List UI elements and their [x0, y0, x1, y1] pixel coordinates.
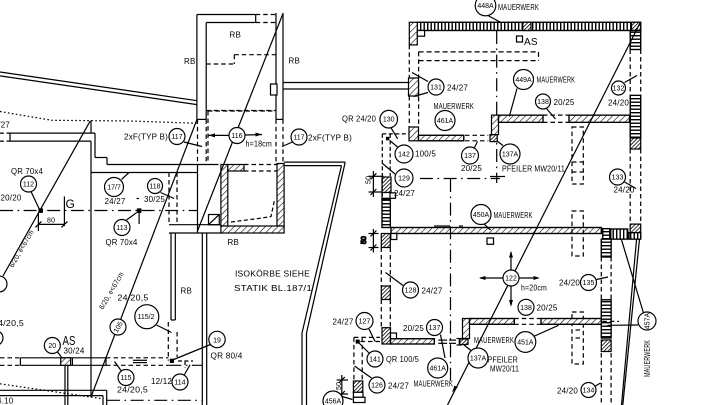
wire dashed box below circle 130: [382, 134, 409, 201]
node circle 137A upper: [500, 144, 520, 164]
svg-text:20/25: 20/25: [554, 98, 575, 107]
wire diagonal section line D1 through circle 116: [197, 14, 283, 232]
wall right ladder column segment 1: [630, 31, 641, 50]
svg-text:24/20,5: 24/20,5: [118, 294, 149, 303]
node circle 137A lower: [468, 348, 488, 368]
wire roof double sloped line top-left: [0, 72, 197, 105]
wire dotted terrain line top-left: [0, 112, 197, 124]
dimension 50 lower with ticks: [337, 375, 348, 399]
wall AS beam bottom-left: [0, 358, 106, 366]
wire long diagonal section line D2: [448, 23, 641, 405]
wall isokorb box top hatched strip: [228, 165, 244, 172]
node circle 137 upper: [462, 147, 479, 164]
svg-text:137: 137: [429, 325, 441, 332]
wall right ladder column segment 2: [630, 95, 641, 138]
wire dotted slope line bottom-left: [0, 384, 103, 399]
svg-text:RB: RB: [230, 31, 242, 40]
wire centerline vertical x=450.5: [450, 179, 452, 384]
svg-text:MW20/11: MW20/11: [490, 365, 519, 374]
svg-text:50: 50: [336, 382, 343, 390]
node filled square at dashed vertical bottom: [170, 359, 173, 362]
wire leader circle 112 to node: [31, 192, 40, 210]
svg-text:20: 20: [48, 343, 56, 350]
svg-text:24/20: 24/20: [557, 387, 578, 396]
node circle 130: [380, 110, 398, 128]
wire dashed rect below AS marker: [419, 52, 539, 61]
svg-text:2xF(TYP B): 2xF(TYP B): [124, 133, 168, 142]
node circle 105 on line: [110, 319, 126, 335]
wall bottom-left box structure: [0, 390, 107, 405]
wall slab edge lines above isokorb box: [169, 225, 221, 233]
node circle 20: [44, 338, 60, 354]
wire leader circle 17/7: [122, 173, 130, 180]
wire double steep line bottom right: [622, 239, 640, 405]
dimension 80 line with oblique ticks: [35, 213, 67, 231]
node circle 448A: [475, 0, 496, 16]
wire dashed verticals below band left end: [409, 45, 418, 127]
wall upper pfeiler column hatched: [492, 115, 499, 135]
wire leader circle 141: [359, 343, 370, 354]
svg-text:138: 138: [520, 305, 532, 312]
svg-text:20/25: 20/25: [537, 304, 558, 313]
wall upper pfeiler dark square: [490, 135, 497, 142]
wall right mid column ladder upper: [601, 239, 611, 257]
node circle edge-left upper: [0, 276, 7, 292]
node arrowhead on D2: [452, 386, 458, 393]
svg-text:24/27: 24/27: [447, 84, 468, 93]
node circle 138 lower: [518, 299, 534, 315]
wall hatched insert piece in top band: [523, 22, 531, 30]
wire dash-dot line bottom: [107, 399, 202, 401]
svg-text:113: 113: [116, 225, 127, 232]
svg-text:2xF(TYP B): 2xF(TYP B): [308, 134, 352, 143]
svg-text:50: 50: [366, 176, 373, 184]
node I-beam end mark: [457, 339, 463, 346]
wire leader circle 142: [390, 141, 398, 148]
wall right column dashed part 2: [630, 149, 641, 224]
wall lower pfeiler dark square: [460, 339, 468, 345]
node small square with diagonal at slab corner: [209, 215, 220, 225]
wire leader circle 451A: [534, 325, 559, 336]
wall bottom middle white blocks: [353, 392, 365, 402]
svg-text:MAUERWERK: MAUERWERK: [494, 211, 533, 220]
svg-text:RB: RB: [228, 238, 240, 247]
node circle 449A: [514, 70, 534, 90]
svg-text:12/12: 12/12: [151, 377, 172, 386]
node circle 451A: [515, 332, 536, 353]
svg-text:118: 118: [149, 184, 160, 191]
node circle 134: [581, 383, 596, 398]
svg-text:17/7: 17/7: [107, 185, 121, 192]
svg-text:20/25: 20/25: [403, 324, 424, 333]
wire leader circle 449A: [509, 89, 517, 117]
wall solid double vertical below isokorb slab: [171, 233, 175, 320]
svg-text:ISOKÖRBE SIEHE: ISOKÖRBE SIEHE: [235, 269, 310, 279]
wall chimney dashed top closing: [256, 15, 276, 23]
node circle 457A: [638, 312, 656, 330]
wall top masonry band with comb hatch: [417, 22, 640, 30]
svg-text:24/27: 24/27: [105, 197, 126, 206]
wall parallelogram wall right of isokorb box: [284, 162, 345, 405]
svg-text:448A: 448A: [477, 3, 494, 10]
svg-text:117: 117: [171, 134, 182, 141]
wall upper wall strip hatched: [419, 135, 464, 141]
node small square below slab right: [487, 238, 494, 244]
wall chimney dashed continuations below: [198, 119, 284, 164]
wire lower band dashed gap: [514, 319, 541, 325]
wire leader circle 130: [391, 128, 398, 139]
wire centerline vertical x=496.7: [496, 31, 498, 183]
node small black square left end: [356, 340, 359, 343]
wire leader circle 448A: [487, 15, 501, 23]
svg-text:MAUERWERK: MAUERWERK: [537, 76, 576, 85]
wall left column dark block below slab: [381, 234, 390, 248]
node small rect at chimney wall junction: [271, 84, 278, 95]
wall upper wall dashed opening: [465, 135, 488, 141]
wire long vertical wall line x=91: [90, 121, 92, 134]
wire AS beam dashed continuation right: [106, 358, 168, 366]
svg-text:135: 135: [583, 280, 595, 287]
svg-text:142: 142: [398, 152, 410, 159]
node circle 450A: [471, 205, 491, 225]
svg-text:RB: RB: [181, 287, 193, 296]
node circle 137 lower: [427, 320, 443, 336]
svg-text:457A: 457A: [645, 313, 652, 330]
svg-text:24/27: 24/27: [422, 287, 443, 296]
wire centerline horizontal y=178.5: [420, 178, 500, 180]
wire right mid column dashed lower: [601, 353, 611, 405]
svg-text:MAUERWERK: MAUERWERK: [414, 380, 454, 389]
svg-text:128: 128: [405, 288, 417, 295]
wire leader circle 135: [597, 277, 609, 280]
wall RB wall double vertical below box: [202, 233, 206, 405]
wall lower pfeiler band hatched: [470, 319, 602, 325]
wire equals marks right of strip: [438, 340, 456, 343]
wire dashed rect C right side: [572, 312, 583, 364]
svg-text:24/20: 24/20: [614, 186, 635, 195]
wall isokorb dashed opening: [244, 165, 277, 172]
svg-text:24/27: 24/27: [388, 382, 409, 391]
svg-text:130: 130: [383, 117, 395, 124]
wall right mid column dark block: [601, 340, 611, 352]
svg-text:20/20: 20/20: [1, 194, 22, 203]
wire leader circle 20: [58, 352, 63, 359]
svg-text:MAUERWERK: MAUERWERK: [498, 3, 539, 12]
svg-text:451A: 451A: [517, 340, 534, 347]
svg-text:G: G: [66, 197, 76, 211]
node circle 116: [229, 128, 245, 144]
wire chimney dashed step inside: [206, 55, 276, 64]
wire lower band dashed continuation: [602, 320, 619, 322]
wire leader circle 126: [355, 366, 372, 378]
node circle 19: [209, 331, 225, 347]
svg-text:MAUERWERK: MAUERWERK: [474, 336, 514, 345]
node marker square of 142: [386, 137, 390, 141]
svg-text:24/27: 24/27: [394, 189, 415, 198]
wire leader circle 137A upper: [497, 141, 503, 146]
wall right column dashed part 1: [630, 50, 641, 96]
wall isokorb box bottom hatched band: [221, 226, 284, 233]
svg-text:461A: 461A: [437, 118, 454, 125]
node AS anchor square: [517, 36, 523, 42]
wall right column dark block 2: [630, 224, 641, 233]
svg-text:115/2: 115/2: [138, 314, 155, 321]
wall main slab hatched band: [391, 228, 601, 234]
svg-text:138: 138: [537, 99, 549, 106]
node circle 118: [148, 179, 163, 194]
svg-text:100/5: 100/5: [415, 150, 436, 159]
node filled square on centerline right: [138, 209, 141, 212]
wall upper band dashed gap: [543, 115, 569, 122]
wire leader circle 137 lower to 461A: [441, 335, 446, 359]
wire dashed rect B right side: [572, 211, 583, 256]
wire leader circle 128: [386, 273, 404, 286]
node circle 133: [610, 169, 626, 185]
wall comb block right part: [629, 233, 641, 240]
node circle 114: [172, 374, 188, 390]
wall left column hatch block upper: [382, 177, 391, 193]
svg-text:QR 100/5: QR 100/5: [386, 355, 419, 364]
node circle 142: [395, 145, 413, 163]
svg-text:h=18cm: h=18cm: [246, 140, 273, 149]
wire leader circle 117 right: [282, 142, 293, 147]
wire dashed wall left of strip: [361, 341, 382, 343]
wall upper-left hatch block of lower building wall: [409, 127, 419, 141]
node circle 115: [118, 370, 134, 386]
node circle 115/2: [135, 305, 159, 329]
wire leader circle 137A lower: [464, 345, 471, 351]
svg-text:114: 114: [174, 380, 185, 387]
wire centerline dashes above band: [434, 225, 463, 227]
node circle 112: [21, 176, 37, 192]
svg-text:24/20,5: 24/20,5: [117, 386, 148, 395]
wire arrow left of circle 116: [209, 133, 230, 137]
wall left column dark block 2: [381, 286, 390, 300]
wire vertical wall line x=197.5 down to slab: [197, 165, 199, 234]
svg-text:PFEILER MW20/11: PFEILER MW20/11: [502, 165, 565, 174]
wire centerline horizontal left y=210.5: [0, 210, 197, 212]
svg-text:450A: 450A: [473, 212, 490, 219]
wall left exterior wall horizontal double line: [0, 133, 95, 141]
wall hidden opening dashed verticals below upper wall: [169, 173, 177, 225]
svg-text:MAUERWERK: MAUERWERK: [643, 340, 652, 377]
svg-text:129: 129: [398, 176, 410, 183]
node circle 461A upper: [435, 111, 455, 131]
svg-text:126: 126: [371, 383, 383, 390]
svg-text:RB: RB: [289, 57, 301, 66]
wire tick before 30/25: [137, 198, 140, 200]
wire dashed rect bottom middle: [354, 337, 380, 380]
svg-text:QR 70x4: QR 70x4: [106, 238, 138, 247]
node circle 132: [612, 81, 626, 95]
wire leader circle 138 upper: [547, 109, 556, 120]
wire diagonal reinforcement line L1: [3, 121, 90, 276]
svg-text:4.10: 4.10: [0, 397, 14, 405]
node circle 126: [369, 377, 385, 393]
wire leader circle 133: [625, 182, 637, 189]
svg-text:134: 134: [583, 388, 595, 395]
wall left column dark block 3: [382, 328, 391, 344]
svg-text:132: 132: [613, 86, 625, 93]
svg-text:QR 24/20: QR 24/20: [342, 115, 376, 124]
wall upper band hatched left part: [499, 115, 544, 122]
svg-text:24/20,5: 24/20,5: [0, 319, 24, 328]
node circle 122: [503, 270, 519, 286]
node filled square on centerline left: [39, 209, 42, 212]
wall right column dark block 1: [630, 138, 641, 149]
svg-text:20/25: 20/25: [461, 164, 482, 173]
wire left column dashed part 2: [381, 300, 390, 328]
svg-text:30/24: 30/24: [64, 347, 85, 356]
wire arrow right of circle 116: [245, 133, 262, 137]
wall hatched corner piece of top band right end: [632, 22, 641, 30]
node circle 461A lower: [428, 358, 448, 378]
node circle 128: [403, 282, 419, 298]
svg-text:115: 115: [120, 375, 131, 382]
dimension 50 upper with ticks: [369, 171, 384, 197]
wall right slab-end blocks: horiz-rung block: [603, 229, 610, 240]
svg-text:24/20: 24/20: [608, 99, 629, 108]
svg-text:117: 117: [293, 135, 304, 142]
wire dashed vertical x=168.3 with node: [167, 322, 169, 361]
wire right mid column dashed: [601, 257, 611, 300]
wire diagonal reinforcement line L2: [91, 119, 197, 397]
wire leader circle 137 upper: [475, 142, 478, 148]
wall hatched left end block of top band: [409, 22, 417, 45]
wall chimney outline: [197, 13, 283, 119]
node circle 113: [114, 220, 130, 236]
svg-text:STATIK BL.187/1: STATIK BL.187/1: [234, 283, 312, 293]
svg-text:24/20: 24/20: [559, 279, 580, 288]
wire leader circle 115: [115, 362, 122, 371]
node circle 138 upper: [536, 94, 551, 109]
wall lower pfeiler column hatched: [463, 319, 470, 339]
node circle 117 left: [169, 129, 185, 145]
svg-text:137A: 137A: [502, 152, 519, 159]
wall AS beam hatched block: [61, 358, 71, 366]
wire dashed rect A right side: [572, 127, 583, 184]
svg-text:MAUERWERK: MAUERWERK: [434, 102, 475, 111]
wall horizontal double wall right of chimney: [283, 83, 410, 90]
wall hatched end block of wall: [409, 78, 419, 96]
wire centerline stub horizontal at y=176.5: [490, 176, 505, 178]
wire chimney dashed bottom line: [206, 110, 276, 112]
wire leader circle 127: [369, 329, 375, 342]
wire leader circle 19 to node: [173, 345, 211, 361]
dimension 50 at slab block: [369, 229, 379, 253]
wall left wall step down corner: [91, 133, 219, 172]
node circle 456A: [323, 391, 343, 405]
wire leader circle 456A: [342, 397, 353, 400]
svg-text:461A: 461A: [430, 366, 447, 373]
wall isokorb box left hatched wall: [221, 165, 228, 227]
svg-text:80: 80: [47, 218, 55, 225]
wire leader circle 117 left: [184, 142, 202, 147]
svg-text:30/25: 30/25: [144, 195, 165, 204]
wire leader circle 134: [596, 383, 601, 386]
wire leader circle 132: [625, 76, 638, 83]
node small step square below band left: [417, 31, 424, 37]
svg-text:137A: 137A: [470, 356, 487, 363]
wire leader circle 129: [383, 164, 396, 175]
svg-text:112: 112: [23, 182, 34, 189]
node circle 17/7: [105, 178, 124, 197]
svg-text:QR 80/4: QR 80/4: [211, 352, 243, 361]
wire dashed box corner left of RB wall bottom: [178, 361, 193, 368]
svg-text:RB: RB: [184, 57, 196, 66]
wire leader 457A horizontal left: [608, 324, 639, 326]
wire leader circle 118: [161, 193, 175, 199]
wire equals mark on beam: [133, 360, 147, 362]
wire tick below node: [138, 213, 140, 225]
svg-text:449A: 449A: [515, 77, 532, 84]
wall isokorb box right hatched wall: [277, 164, 284, 227]
wall left ladder column: [382, 199, 390, 228]
svg-text:QR 70x4: QR 70x4: [11, 167, 43, 176]
node circle 129: [395, 169, 413, 187]
node circle 141: [367, 351, 383, 367]
svg-text:456A: 456A: [325, 399, 342, 405]
wire dashed excavation spline inside box: [231, 200, 275, 222]
wire left column dashed part: [381, 248, 390, 287]
wall comb block left part: [611, 229, 628, 239]
wire crosshair arrows of circle 122: [479, 251, 540, 307]
node small white square above strip left end: [391, 333, 397, 339]
wire leader comb to circle 457A: [621, 239, 643, 313]
grid axis G vertical line: [63, 197, 65, 227]
svg-text:122: 122: [505, 276, 517, 283]
node circle 135: [581, 275, 597, 291]
wall right mid column ladder lower: [601, 300, 611, 338]
wall bottom middle hatch block: [353, 381, 362, 392]
wire leader circle 114: [185, 365, 191, 375]
svg-text:141: 141: [369, 357, 381, 364]
wire leader circle 450A: [484, 224, 491, 230]
svg-text:19: 19: [213, 338, 221, 345]
node small square below slab left: [391, 234, 397, 240]
wire dash-dot continuation of lower line: [168, 364, 202, 366]
wire leader circle 131 lower: [414, 93, 429, 97]
node circle edge-left lower: [0, 331, 3, 346]
svg-text:137: 137: [464, 153, 476, 160]
svg-text:133: 133: [612, 175, 624, 182]
wire dashed box around 116 zone: [208, 111, 276, 162]
node circle 131: [428, 79, 444, 95]
svg-text:116: 116: [231, 133, 242, 140]
wall left column white blocks: [382, 193, 396, 199]
node circle 127: [356, 313, 373, 330]
svg-text:24/27: 24/27: [0, 121, 10, 130]
svg-text:AS: AS: [524, 37, 538, 48]
wall upper band hatched right part: [569, 115, 630, 122]
svg-text:24/27: 24/27: [333, 318, 354, 327]
wire leader circle 115/2: [157, 325, 172, 333]
wall lower-left wall strip hatched: [391, 339, 435, 344]
svg-text:127: 127: [359, 319, 371, 326]
svg-text:PFEILER: PFEILER: [488, 356, 519, 365]
node circle 117 right: [291, 129, 307, 145]
wall double vertical below AS beam: [65, 365, 68, 405]
wire leader circle 113 to node: [127, 213, 137, 221]
svg-text:131: 131: [430, 85, 442, 92]
wire leader circle 131 upper: [412, 73, 428, 82]
svg-text:50: 50: [361, 236, 368, 244]
svg-text:h=20cm: h=20cm: [521, 284, 547, 293]
